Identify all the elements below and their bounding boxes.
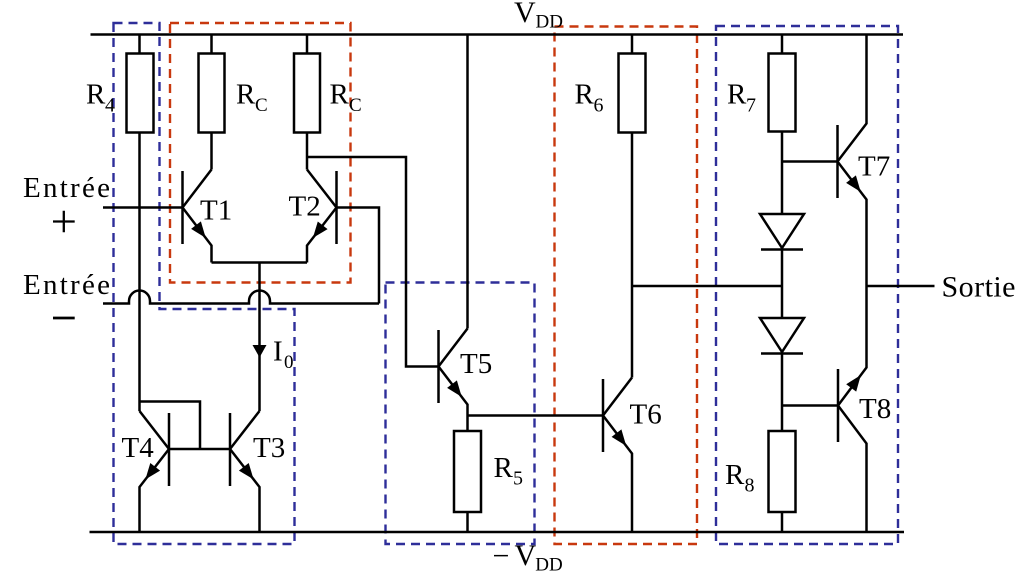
svg-text:R: R (494, 452, 514, 484)
wire: R6 bottom to T6 collector (631, 133, 634, 378)
svg-text:T6: T6 (630, 399, 662, 431)
svg-text:−: − (493, 540, 510, 573)
wire: RC2 top feed (306, 35, 309, 54)
wire: RC1 bottom to T1 collector (210, 133, 213, 170)
svg-text:Sortie: Sortie (942, 271, 1016, 304)
wire: R8 to -VDD (781, 512, 784, 532)
svg-text:T1: T1 (200, 195, 232, 227)
wire: VDD top rail (91, 33, 904, 36)
wire: D2 to R8 with T8 base tap (781, 352, 784, 431)
wire: T5 emitter to R5 (466, 416, 469, 432)
wire: T4-T3 base link (169, 448, 230, 451)
wire: D1 to D2 through output tap (781, 248, 784, 318)
svg-text:R: R (727, 79, 747, 111)
svg-text:V: V (515, 539, 537, 572)
wire: T2 collector to T5 base (307, 157, 439, 367)
blue dashed group box: T5/R5 stage (386, 283, 535, 545)
wire: Entree+ input (103, 206, 183, 209)
transistor T3 (230, 411, 260, 532)
svg-text:C: C (255, 95, 268, 116)
svg-text:6: 6 (594, 95, 604, 117)
svg-text:R: R (725, 459, 745, 491)
svg-text:T2: T2 (289, 191, 321, 223)
wire: T2 base link (337, 208, 380, 304)
resistor RC2 (294, 54, 320, 133)
svg-text:8: 8 (745, 475, 755, 497)
wire: R7 bottom to diode D1 (781, 132, 784, 215)
red dashed group box: R6/T6 stage (555, 27, 698, 545)
transistor T1 (183, 170, 212, 263)
wire: T7 base link (782, 160, 838, 163)
resistor R6 (619, 54, 646, 133)
transistor T4 (140, 411, 170, 532)
svg-text:T5: T5 (460, 348, 492, 380)
resistor R7 (769, 54, 796, 132)
wire: tail current down to T3 collector (258, 263, 261, 412)
svg-text:DD: DD (535, 555, 562, 576)
resistor RC1 (199, 54, 225, 133)
svg-text:T3: T3 (253, 432, 285, 464)
svg-text:I: I (273, 336, 283, 368)
wire: -VDD bottom rail (90, 531, 905, 534)
red dashed group box: differential pair (170, 23, 351, 283)
transistor T5 (439, 329, 468, 416)
wire: RC1 top feed (210, 35, 213, 54)
wire: Sortie output (867, 285, 935, 288)
wire: common emitter link (212, 261, 308, 264)
wire: RC2 bottom to T2 collector (306, 133, 309, 170)
svg-text:R: R (86, 79, 106, 111)
transistor T8 (838, 286, 867, 532)
svg-text:4: 4 (105, 95, 115, 117)
svg-text:C: C (349, 95, 362, 116)
transistor T2 (307, 170, 337, 263)
wire: R6 top feed (631, 35, 634, 54)
svg-text:V: V (514, 0, 536, 29)
svg-text:7: 7 (746, 95, 756, 117)
wire: R4 bottom down to T4 collector (138, 133, 141, 412)
svg-text:0: 0 (284, 352, 294, 373)
diode D2 (760, 318, 804, 354)
svg-text:R: R (330, 79, 350, 111)
blue dashed group box: output stage (716, 26, 898, 544)
wire: R7 top feed (781, 35, 784, 54)
svg-text:Entrée: Entrée (23, 172, 110, 204)
svg-text:5: 5 (513, 468, 523, 490)
wire: VDD to T5 collector (466, 35, 469, 329)
wire: T5 emitter to T6 base (468, 414, 604, 417)
svg-text:R: R (575, 79, 595, 111)
svg-text:T8: T8 (859, 393, 891, 425)
wire: R4 top feed (138, 35, 141, 54)
blue dashed group box: R4 + current mirror (114, 23, 295, 544)
wire: T8 base link (782, 404, 838, 407)
svg-text:Entrée: Entrée (23, 269, 110, 301)
current arrow I0 (253, 345, 267, 358)
resistor R8 (769, 431, 796, 512)
svg-text:DD: DD (536, 12, 563, 33)
resistor R5 (454, 431, 481, 512)
diode D1 (760, 214, 804, 250)
wire: R5 to -VDD (466, 512, 469, 532)
wire: Entree- input with two hops (103, 291, 379, 304)
svg-text:T4: T4 (122, 432, 155, 464)
svg-text:T7: T7 (858, 151, 890, 183)
transistor T6 (603, 378, 632, 533)
transistor T7 (838, 35, 867, 287)
resistor R4 (127, 54, 154, 133)
svg-text:R: R (236, 79, 256, 111)
wire: output node to diode chain (632, 285, 782, 288)
wire: T4 collector-base tie (140, 402, 201, 450)
